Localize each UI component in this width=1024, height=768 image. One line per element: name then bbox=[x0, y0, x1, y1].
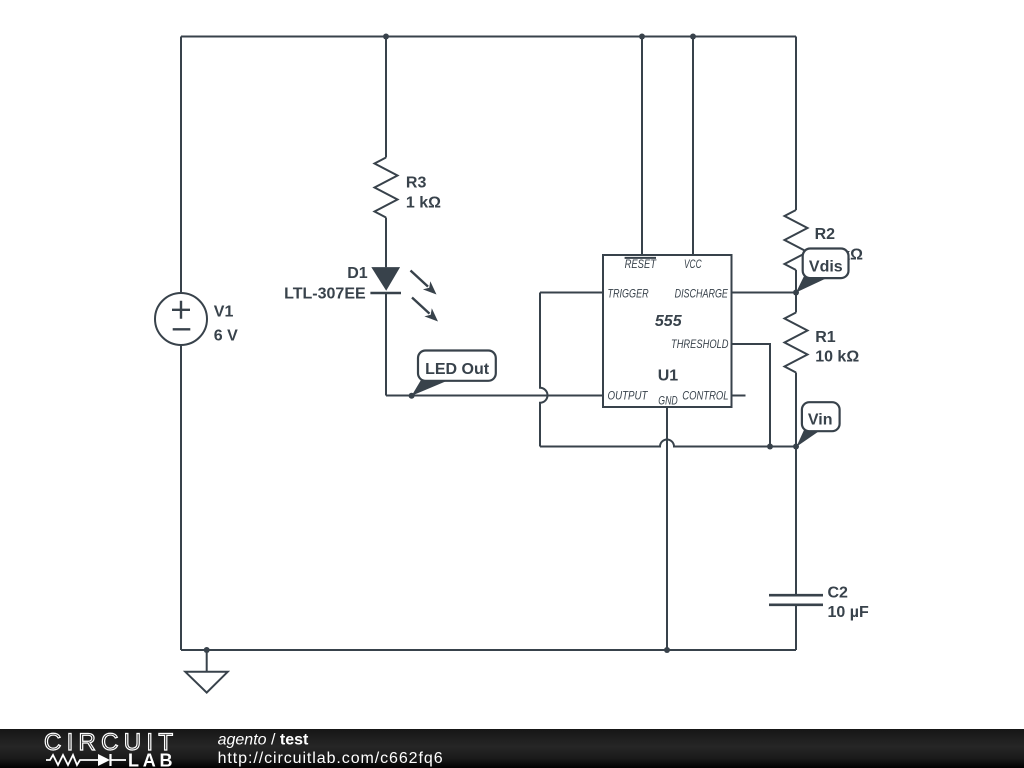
label C2 bbox=[828, 585, 849, 602]
svg-text:http://circuitlab.com/c662fq6: http://circuitlab.com/c662fq6 bbox=[218, 750, 443, 767]
wire THRESHOLD pin down to lower run bbox=[732, 344, 771, 447]
label 10 kOhm bbox=[815, 349, 859, 366]
svg-text:LTL-307EE: LTL-307EE bbox=[284, 286, 366, 303]
op 555 timer U1 box bbox=[603, 255, 732, 407]
label 1 kOhm bbox=[406, 195, 441, 212]
capacitor C2 bbox=[769, 595, 823, 605]
svg-text:CONTROL: CONTROL bbox=[682, 388, 728, 402]
svg-text:agento / test: agento / test bbox=[218, 732, 309, 749]
footer bar bbox=[0, 729, 1024, 768]
junction Vdis node bbox=[793, 290, 799, 296]
svg-text:555: 555 bbox=[655, 313, 683, 330]
label U1 bbox=[658, 368, 679, 385]
svg-text:R3: R3 bbox=[406, 175, 427, 192]
wire TRIGGER pin to left corner bbox=[540, 292, 603, 294]
pin label CONTROL bbox=[682, 388, 728, 402]
pin label OUTPUT bbox=[608, 388, 649, 402]
svg-text:TRIGGER: TRIGGER bbox=[608, 286, 649, 300]
svg-text:6 V: 6 V bbox=[214, 328, 238, 345]
junction ground tap bbox=[204, 647, 210, 653]
svg-text:1 kΩ: 1 kΩ bbox=[406, 195, 441, 212]
svg-text:LED Out: LED Out bbox=[425, 361, 490, 378]
pin label TRIGGER bbox=[608, 286, 649, 300]
node flag Vin bbox=[796, 402, 839, 447]
wire R3 to top rail bbox=[385, 37, 387, 158]
svg-text:U1: U1 bbox=[658, 368, 679, 385]
CircuitLab logo resistor-diode glyph bbox=[46, 754, 126, 766]
wire top rail V+ bbox=[181, 36, 796, 38]
svg-text:C2: C2 bbox=[828, 585, 849, 602]
wire R2 to R1 through Vdis node bbox=[795, 270, 797, 313]
pin label THRESHOLD bbox=[671, 337, 729, 351]
svg-text:D1: D1 bbox=[347, 265, 368, 282]
svg-text:R1: R1 bbox=[815, 329, 836, 346]
wire trigger drop with hop over output run bbox=[540, 293, 548, 447]
resistor R2 bbox=[785, 210, 808, 270]
label 10 uF bbox=[828, 604, 869, 621]
wire VCC pin to top rail bbox=[692, 37, 694, 256]
resistor R1 bbox=[785, 313, 808, 373]
svg-text:Vdis: Vdis bbox=[809, 259, 843, 276]
label D1 bbox=[347, 265, 368, 282]
label LTL-307EE bbox=[284, 286, 366, 303]
wire left rail from top rail to V1 bbox=[180, 37, 182, 294]
junction Vin node bbox=[793, 444, 799, 450]
label R3 bbox=[406, 175, 427, 192]
wire left rail from V1 to ground rail bbox=[180, 345, 182, 650]
wire lower run with hop over GND wire bbox=[540, 440, 796, 447]
wire RESET pin to top rail bbox=[641, 37, 643, 256]
junction GND / ground rail bbox=[664, 647, 670, 653]
ground symbol bbox=[185, 672, 227, 693]
node flag LED Out bbox=[412, 351, 496, 396]
voltage source V1 bbox=[155, 293, 207, 345]
svg-text:LAB: LAB bbox=[128, 751, 173, 768]
wire D1 cathode down to output corner bbox=[385, 293, 387, 396]
wire CONTROL stub bbox=[732, 395, 746, 397]
wire U1 GND pin to ground rail bbox=[666, 407, 668, 650]
svg-text:GND: GND bbox=[658, 394, 678, 408]
label R1 bbox=[815, 329, 836, 346]
pin label RESET with overline bbox=[625, 257, 658, 271]
wire bottom ground rail bbox=[181, 649, 796, 651]
svg-text:V1: V1 bbox=[214, 304, 234, 321]
label 555 bbox=[655, 313, 683, 330]
svg-text:THRESHOLD: THRESHOLD bbox=[671, 337, 729, 351]
CircuitLab logo word LAB bbox=[128, 751, 173, 768]
junction top rail / R3 bbox=[383, 34, 389, 40]
svg-text:OUTPUT: OUTPUT bbox=[608, 388, 649, 402]
wire C2 to ground rail bbox=[795, 605, 797, 650]
node flag Vdis bbox=[796, 249, 849, 293]
svg-text:Vin: Vin bbox=[808, 412, 833, 429]
resistor R3 bbox=[375, 158, 398, 218]
pin label DISCHARGE bbox=[675, 286, 729, 300]
LED D1 bbox=[370, 267, 401, 293]
svg-text:R2: R2 bbox=[815, 226, 836, 243]
junction LED Out tap bbox=[409, 393, 415, 399]
label V1 bbox=[214, 304, 234, 321]
LED D1 emission arrow 2 bbox=[412, 298, 438, 322]
wire Vin node down to C2 bbox=[795, 447, 797, 596]
svg-text:DISCHARGE: DISCHARGE bbox=[675, 286, 729, 300]
wire DISCHARGE pin to Vdis node bbox=[732, 292, 797, 294]
label R2 bbox=[815, 226, 836, 243]
wire output run to U1 OUTPUT pin bbox=[386, 395, 603, 397]
junction top rail / VCC bbox=[690, 34, 696, 40]
wire R3 to D1 anode bbox=[385, 218, 387, 268]
wire ground tap stub bbox=[206, 650, 208, 672]
CircuitLab logo word CIRCUIT bbox=[44, 729, 173, 756]
wire R1 down to Vin node bbox=[795, 373, 797, 447]
junction top rail / RESET bbox=[639, 34, 645, 40]
wire top rail down to R2 bbox=[795, 37, 797, 211]
footer url bbox=[218, 750, 443, 767]
junction threshold / lower run bbox=[767, 444, 773, 450]
footer title agento / test bbox=[218, 732, 309, 749]
label 4.7 kOhm (hidden behind Vdis flag) bbox=[815, 247, 864, 264]
svg-text:10 kΩ: 10 kΩ bbox=[815, 349, 859, 366]
pin label VCC bbox=[684, 257, 702, 271]
svg-text:VCC: VCC bbox=[684, 257, 702, 271]
LED D1 emission arrow 1 bbox=[411, 271, 437, 295]
pin label GND bbox=[658, 394, 678, 408]
label 6 V bbox=[214, 328, 238, 345]
svg-text:10 µF: 10 µF bbox=[828, 604, 869, 621]
